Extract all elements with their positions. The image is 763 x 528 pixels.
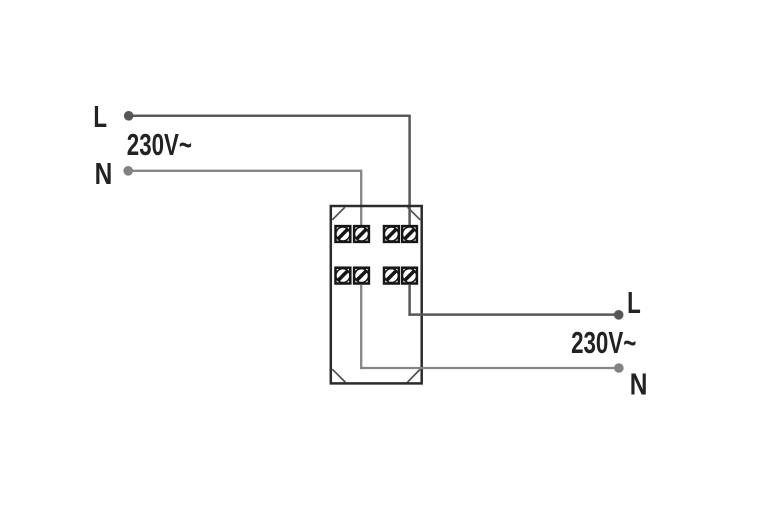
- node N input: [123, 166, 133, 176]
- wire L input vertical: [408, 115, 411, 226]
- wire L output vertical: [408, 285, 411, 316]
- svg-text:L: L: [627, 285, 641, 319]
- terminal screw 7 (bottom row, col 3): [384, 268, 399, 284]
- terminal screw 4 (top row, col 4): [402, 226, 417, 242]
- wire L output horizontal: [408, 313, 618, 316]
- wire N input horizontal: [128, 170, 361, 172]
- svg-text:N: N: [95, 156, 113, 190]
- terminal screw 2 (top row, col 2): [354, 226, 369, 242]
- wire N output vertical: [360, 285, 362, 370]
- device body (DIN module outline): [331, 206, 422, 383]
- node N output: [614, 363, 624, 373]
- node L output: [614, 310, 624, 320]
- corner chamfer top-right: [408, 207, 421, 220]
- corner chamfer bottom-left: [332, 369, 345, 382]
- terminal screw 3 (top row, col 3): [384, 226, 399, 242]
- corner chamfer top-left: [332, 207, 345, 220]
- svg-text:L: L: [93, 100, 107, 134]
- terminal screw 6 (bottom row, col 2): [354, 268, 369, 284]
- terminal screw 8 (bottom row, col 4): [402, 268, 417, 284]
- svg-text:230V~: 230V~: [571, 325, 636, 359]
- node L input: [124, 111, 134, 121]
- wire N input vertical: [360, 170, 362, 226]
- terminal screw 1 (top row, col 1): [335, 226, 350, 242]
- svg-text:N: N: [630, 367, 648, 401]
- corner chamfer bottom-right: [407, 369, 420, 382]
- svg-text:230V~: 230V~: [127, 128, 192, 162]
- terminal screw 5 (bottom row, col 1): [335, 268, 350, 284]
- wire L input horizontal: [129, 115, 410, 118]
- wire N output horizontal: [360, 367, 619, 369]
